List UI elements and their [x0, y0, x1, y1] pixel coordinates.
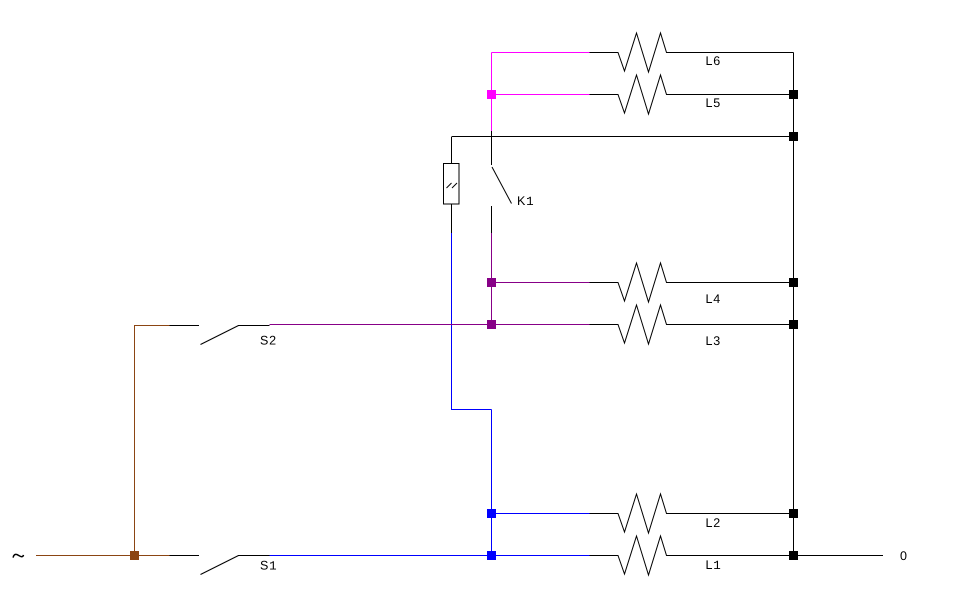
- label L6: [707, 56, 720, 65]
- wire: blue stub to L2: [492, 513, 590, 515]
- terminal 0: [900, 551, 906, 560]
- label L1: [707, 560, 721, 569]
- node: bus at L4: [789, 278, 798, 287]
- relay coil: [444, 137, 460, 233]
- node: purple junction at L3: [487, 320, 496, 329]
- wire: right bus: [793, 53, 795, 556]
- ac source terminal ~: [13, 554, 23, 557]
- resistor L5: [590, 75, 794, 114]
- switch S1: [170, 556, 270, 575]
- node: bus at L5: [789, 90, 798, 99]
- node: blue junction at L2: [487, 509, 496, 518]
- resistor L4: [590, 263, 794, 302]
- node: bus at L3: [789, 320, 798, 329]
- node: bus at L1: [789, 551, 798, 560]
- wire: brown horizontal to S2: [134, 325, 170, 327]
- switch K1: [492, 131, 512, 233]
- wire: brown vertical riser: [134, 325, 136, 556]
- wire: black from coil top to bus: [452, 136, 794, 138]
- resistor L6: [590, 33, 794, 72]
- label L4: [707, 294, 720, 303]
- node: bus at L2: [789, 509, 798, 518]
- node: magenta junction: [487, 90, 496, 99]
- resistor L3: [590, 305, 794, 344]
- wire: brown from source to node: [36, 555, 170, 557]
- node: purple junction at L4: [487, 278, 496, 287]
- wire: blue from S1 to node column: [270, 555, 590, 557]
- switch S2: [170, 326, 270, 345]
- label K1: [518, 196, 533, 205]
- node: brown junction: [130, 551, 139, 560]
- label L5: [707, 98, 720, 107]
- label S1: [261, 561, 276, 570]
- wire: purple from S2 to node column: [270, 324, 590, 326]
- wire: purple vertical between K1 and L3: [491, 233, 493, 325]
- resistor L2: [590, 494, 794, 533]
- label S2: [261, 336, 276, 345]
- label L3: [707, 336, 720, 345]
- wire: to terminal 0: [794, 555, 884, 557]
- node: bus at coil wire: [789, 132, 798, 141]
- wire: blue vertical between L2 and L1: [491, 514, 493, 556]
- label L2: [707, 518, 720, 527]
- resistor L1: [590, 536, 794, 575]
- wire: magenta vertical for L6/L5 feed: [492, 53, 590, 132]
- wire: blue from coil bottom with step to lamp column: [452, 233, 492, 514]
- wire: purple stub to L4: [492, 282, 590, 284]
- node: blue junction at L1: [487, 551, 496, 560]
